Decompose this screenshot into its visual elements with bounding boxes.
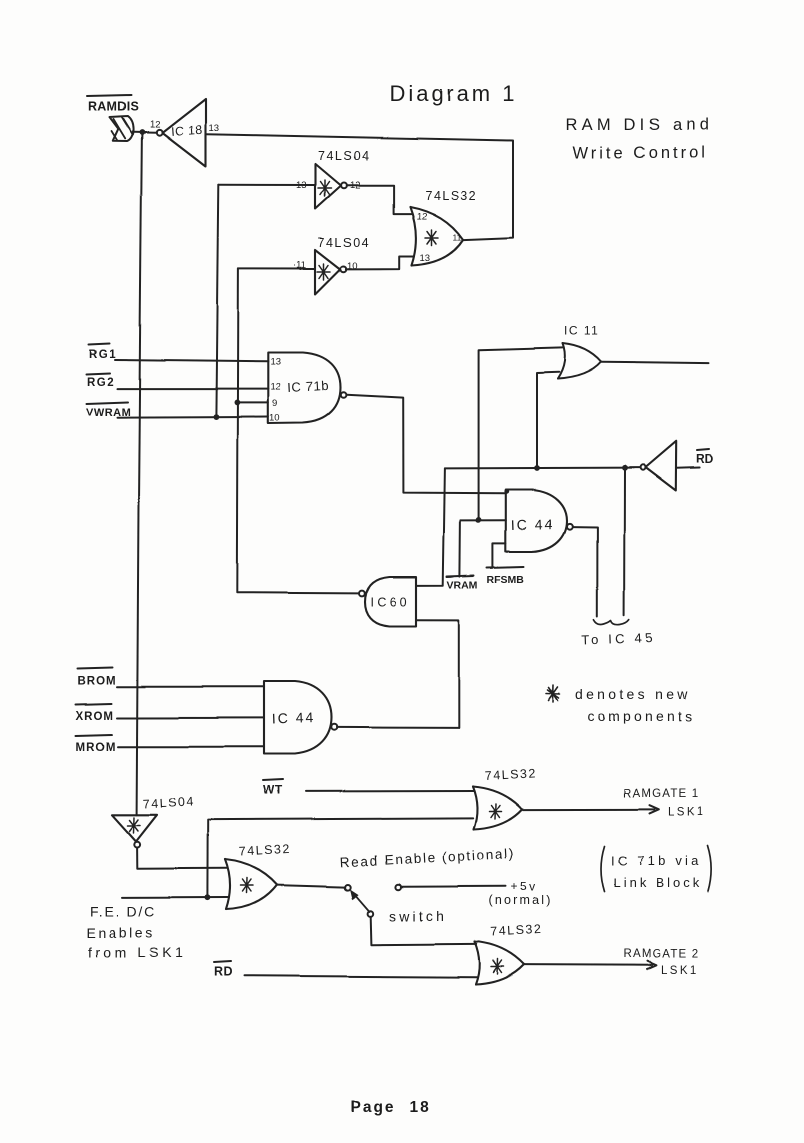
wire riser from OR2 junction to RAMGATE1 OR bottom input	[208, 818, 473, 897]
wire vertical from inverter2 input down to IC60 output	[237, 268, 358, 593]
new-component star on inverter 3	[128, 818, 141, 834]
wire RG2 to IC71b pin 12	[117, 388, 268, 390]
svg-text:(normal): (normal)	[489, 894, 553, 908]
wire IC18 pin13 to 74LS32 output loop	[206, 134, 513, 239]
wire input to inverter 1	[219, 184, 315, 186]
junction pin9 branch	[235, 400, 241, 406]
svg-text:denotes new: denotes new	[575, 686, 691, 702]
wire +5v	[401, 885, 506, 888]
brace to IC45	[594, 620, 629, 625]
junction RD/IC45	[622, 465, 628, 471]
wire IC71b pin 9 stub	[237, 401, 268, 403]
svg-text:switch: switch	[389, 908, 447, 924]
svg-text:LSK1: LSK1	[668, 807, 706, 819]
svg-text:LSK1: LSK1	[661, 965, 699, 977]
svg-text:Enables: Enables	[87, 925, 156, 941]
svg-text:74LS32: 74LS32	[425, 189, 477, 203]
svg-text:74LS04: 74LS04	[142, 794, 195, 811]
svg-text:IC 44: IC 44	[272, 709, 316, 727]
svg-text:IC60: IC60	[370, 595, 410, 609]
svg-text:IC 71b via: IC 71b via	[611, 853, 702, 868]
wire XROM to IC44b	[118, 717, 265, 719]
svg-text:11: 11	[453, 232, 462, 242]
svg-text:RAMGATE 2: RAMGATE 2	[623, 949, 699, 961]
svg-text:IC 44: IC 44	[511, 515, 555, 533]
svg-text:RD: RD	[214, 965, 233, 979]
svg-text:74LS32: 74LS32	[484, 766, 537, 783]
junction OR2 input branch	[205, 895, 211, 901]
svg-text:9: 9	[273, 398, 278, 409]
or-gate 74LS32 RAMGATE2	[475, 942, 525, 985]
switch contact C (+5v)	[395, 884, 401, 890]
svg-text:Diagram 1: Diagram 1	[389, 81, 517, 106]
svg-text:MROM: MROM	[76, 742, 116, 754]
svg-text:F.E. D/C: F.E. D/C	[90, 904, 157, 920]
nand-gate IC44 (middle)	[506, 490, 567, 552]
switch contact A	[345, 885, 351, 891]
nand-gate IC60 (mirrored)	[365, 577, 417, 626]
svg-text:Link Block: Link Block	[613, 875, 702, 890]
svg-text:74LS32: 74LS32	[239, 842, 292, 859]
svg-text:XROM: XROM	[76, 711, 115, 723]
wire WT to RAMGATE1 OR top input	[306, 790, 474, 792]
svg-text:BROM: BROM	[78, 676, 117, 688]
or-gate 74LS32 U-top	[410, 207, 463, 266]
connector pad RAMDIS (hatched)	[110, 117, 134, 142]
svg-text:13: 13	[271, 357, 282, 368]
svg-text:RAMDIS: RAMDIS	[88, 100, 139, 114]
svg-text:RG1: RG1	[89, 349, 117, 361]
svg-text:13: 13	[420, 253, 431, 264]
wire pad to IC18 input	[133, 131, 156, 133]
wire RD line down to IC60 top input	[416, 468, 445, 585]
svg-text:RD: RD	[696, 452, 714, 466]
svg-text:Read Enable (optional): Read Enable (optional)	[339, 846, 515, 870]
svg-text:RG2: RG2	[87, 377, 115, 389]
inverter 74LS04 no.2	[316, 250, 341, 295]
svg-text:RAMGATE 1: RAMGATE 1	[623, 788, 699, 800]
svg-text:12: 12	[150, 120, 161, 131]
junction RAMDIS node	[139, 130, 145, 136]
wire inverter3 output to OR2 top input	[137, 848, 227, 869]
switch lever with arrow	[354, 894, 369, 912]
wire RAMDIS vertical bus	[137, 133, 142, 815]
svg-text:Write Control: Write Control	[573, 144, 708, 162]
svg-text:WT: WT	[263, 783, 283, 797]
wire IC11 bottom input from RD line	[537, 372, 559, 468]
or-gate IC11	[558, 344, 602, 380]
junction VRAM/IC11 branch	[476, 517, 482, 523]
star legend symbol	[546, 686, 560, 703]
svg-text:IC 11: IC 11	[564, 324, 599, 338]
wire IC44 output down to IC45	[573, 527, 598, 617]
wire IC11 top input from VRAM node	[479, 348, 563, 520]
switch contact B (common)	[368, 911, 374, 917]
wire IC60 lower input loop to VRAM gate output	[337, 620, 459, 728]
svg-text:IC 71b: IC 71b	[287, 378, 329, 395]
or-gate 74LS32 OR2	[226, 860, 278, 910]
junction IC44 top input corner	[504, 489, 509, 494]
new-component star on OR2	[241, 878, 254, 893]
wire RAMGATE1 output with arrow	[522, 805, 659, 813]
wire IC11 output	[601, 362, 708, 363]
wire F.E. D/C input to OR2 bottom	[122, 897, 229, 899]
new-component star on inverter 1	[319, 180, 332, 196]
new-component star on inverter 2	[318, 264, 331, 280]
wire RD branch down to IC45	[623, 468, 625, 615]
wire RD inverter input	[676, 467, 699, 470]
or-gate 74LS32 RAMGATE1	[473, 787, 523, 830]
wire inverter1 output to OR pin 12	[347, 185, 411, 213]
inverter IC18	[162, 99, 206, 167]
wire BROM to IC44b	[118, 686, 265, 688]
svg-text:+5v: +5v	[511, 880, 538, 894]
svg-text:from LSK1: from LSK1	[88, 944, 187, 960]
wire MROM to IC44b	[118, 746, 264, 748]
wire RAMGATE2 output with arrow	[525, 961, 657, 969]
wire VWRAM to IC71b pin 10	[117, 416, 268, 419]
wire RFSMB to IC44 bottom input	[493, 543, 506, 567]
wire RD horizontal line	[445, 467, 640, 470]
wire inverter2 output to OR pin 13	[346, 256, 414, 269]
svg-text:10: 10	[270, 413, 281, 424]
wire VRAM label riser	[459, 520, 462, 576]
svg-text:74LS04: 74LS04	[318, 236, 370, 250]
nand-gate IC71b	[268, 353, 340, 424]
new-component star on RAMGATE2 OR	[492, 959, 505, 974]
svg-text:12: 12	[271, 382, 282, 393]
wire RG1 to IC71b pin 13	[115, 360, 268, 362]
new-component star on RAMGATE1 OR	[489, 804, 502, 819]
new-component star on top OR	[425, 230, 438, 246]
svg-text:13: 13	[209, 123, 220, 134]
wire switch common to RAMGATE2 OR top input	[371, 917, 477, 945]
nand-gate IC44 (bottom)	[264, 682, 332, 755]
wire RD to RAMGATE2 OR bottom input	[245, 976, 478, 978]
junction VWRAM / inverter1 branch	[214, 414, 220, 420]
svg-text:To IC 45: To IC 45	[582, 630, 656, 648]
big parens note: IC 71b via Link Block	[601, 846, 605, 892]
svg-text:74LS32: 74LS32	[490, 922, 543, 939]
svg-text:12: 12	[417, 211, 428, 222]
wire vertical from inverter1 input down to VWRAM junction	[216, 185, 218, 417]
wire OR2 output to switch	[278, 885, 346, 887]
wire input to inverter 2	[238, 267, 315, 269]
inverter 74LS04 no.1	[316, 164, 342, 209]
svg-text:RAM DIS and: RAM DIS and	[566, 116, 713, 134]
svg-text:components: components	[587, 708, 695, 724]
svg-text:74LS04: 74LS04	[318, 149, 370, 163]
wire VRAM node to IC44 middle input	[461, 519, 506, 521]
svg-text:RFSMB: RFSMB	[487, 574, 525, 586]
inverter RD buffer	[646, 441, 677, 490]
junction RD/IC11	[534, 465, 540, 471]
svg-text:18: 18	[409, 1099, 430, 1116]
inverter 74LS04 no.3 (pointing down)	[112, 815, 157, 842]
svg-text:VRAM: VRAM	[447, 579, 478, 591]
wire IC71b output to IC44 top input	[347, 395, 506, 493]
svg-text:Page: Page	[350, 1099, 395, 1116]
svg-text:IC 18: IC 18	[170, 123, 203, 139]
